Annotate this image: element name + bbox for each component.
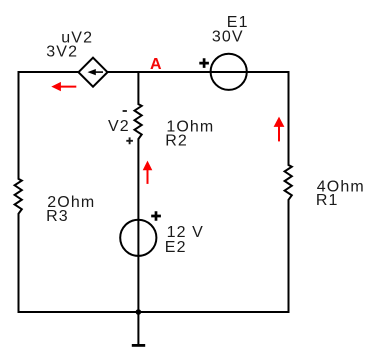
svg-text:3V2: 3V2 — [46, 43, 78, 60]
svg-text:R2: R2 — [165, 132, 188, 149]
svg-text:E2: E2 — [165, 239, 187, 256]
svg-text:A: A — [150, 56, 162, 73]
svg-text:R3: R3 — [46, 208, 69, 225]
svg-text:V2: V2 — [108, 118, 130, 135]
svg-text:R1: R1 — [316, 192, 339, 209]
svg-text:30V: 30V — [212, 29, 244, 46]
